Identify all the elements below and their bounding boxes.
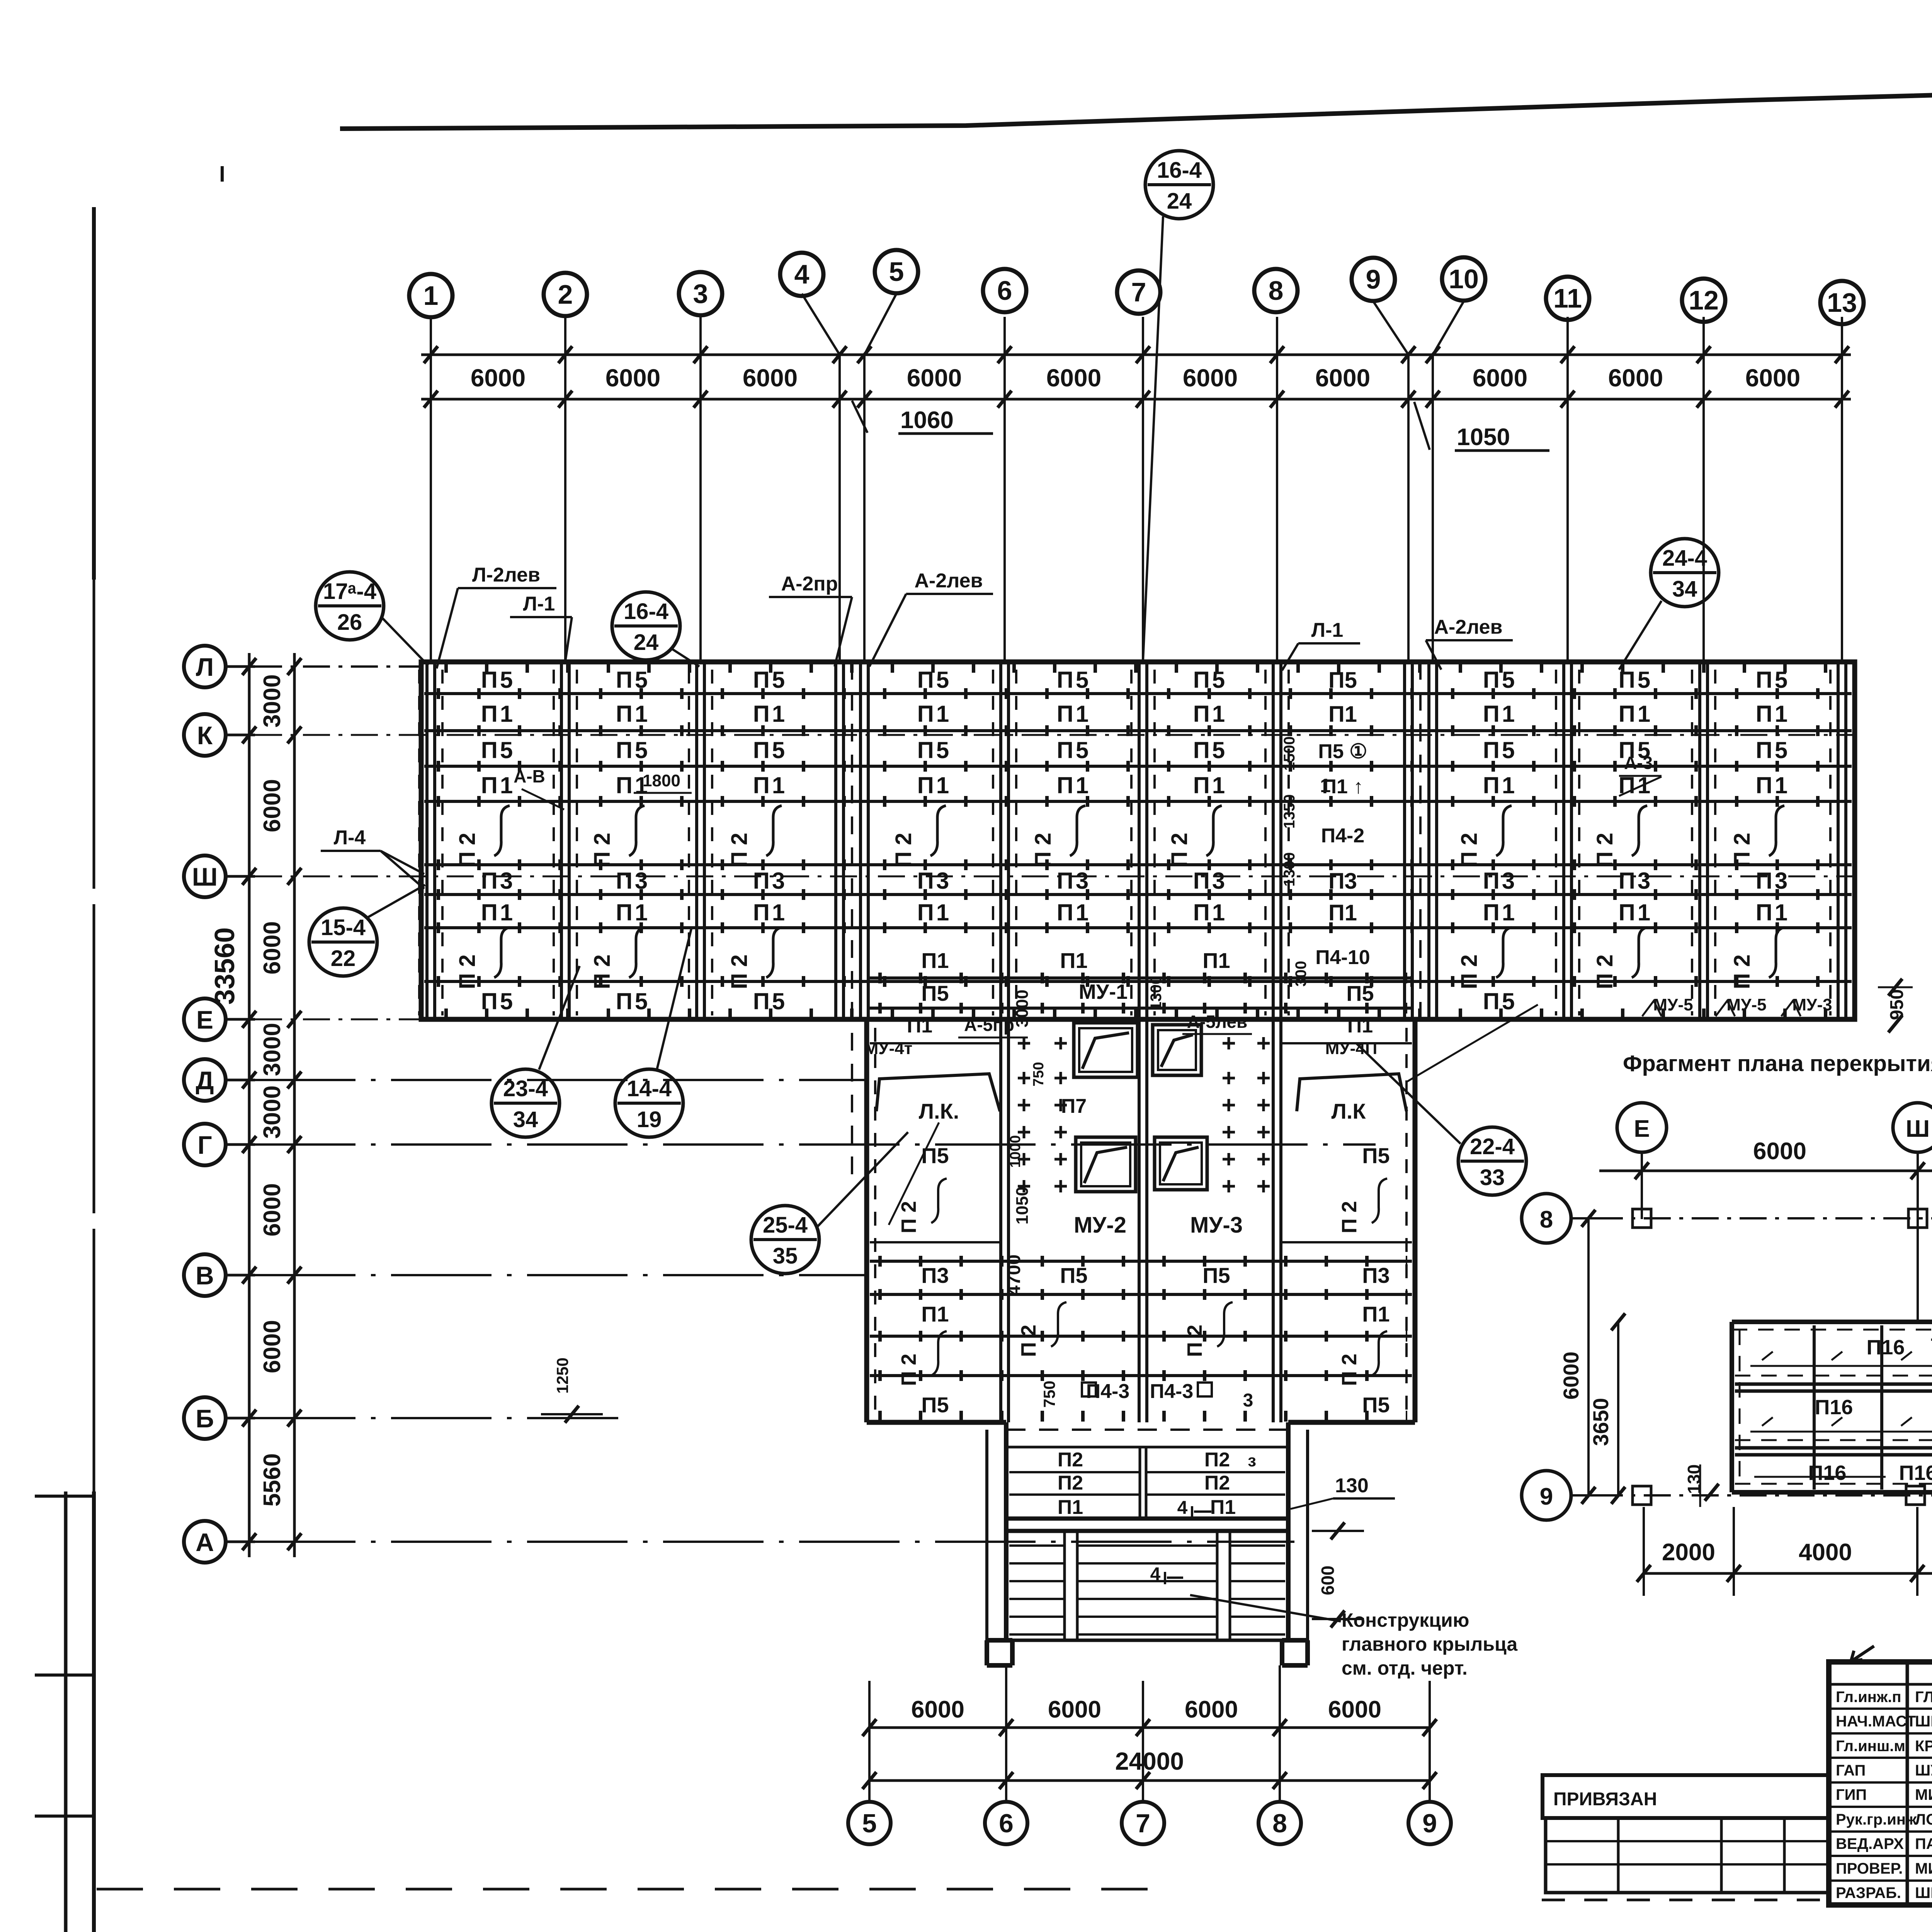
svg-text:Ш: Ш [192,862,218,891]
grid circle 8 [1254,269,1298,312]
svg-text:П5: П5 [481,667,515,693]
svg-text:7: 7 [1136,1809,1150,1838]
grid circle 11 [1546,277,1589,320]
svg-text:П 2: П 2 [1338,1201,1361,1233]
svg-text:ГАП: ГАП [1836,1762,1866,1779]
svg-text:ПАНФЕРОВА: ПАНФЕРОВА [1915,1835,1932,1852]
svg-text:П1: П1 [917,772,952,798]
label Л-4 [321,827,424,889]
slab panel strip lines (top bar) [424,667,1852,1014]
fragment panel labels [1750,1330,1932,1485]
svg-text:14-4: 14-4 [627,1076,672,1101]
svg-text:1: 1 [423,281,439,311]
svg-text:П1: П1 [1210,1496,1236,1519]
svg-text:Л-1: Л-1 [523,593,555,615]
svg-text:9: 9 [1422,1809,1437,1838]
column grid vertical lines above plan [431,317,1842,662]
svg-text:А-5пр: А-5пр [964,1015,1014,1035]
svg-text:см. отд. черт.: см. отд. черт. [1342,1657,1468,1679]
panel labels bay 3-4 [727,667,787,1014]
svg-text:П3: П3 [753,868,787,894]
left border [35,207,94,1932]
svg-text:ПРИВЯЗАН: ПРИВЯЗАН [1553,1789,1657,1810]
row grid line К [255,734,1855,736]
callout circle 14-4/19 [615,927,692,1137]
fragment grid row 9 dashdot [1596,1486,1932,1505]
svg-text:главного крыльца: главного крыльца [1342,1633,1518,1655]
svg-text:17ᵃ-4: 17ᵃ-4 [323,579,376,604]
dim 1800 in bay 3-4 [634,771,692,793]
svg-text:П3: П3 [1328,869,1357,894]
svg-text:П3: П3 [921,1263,949,1287]
svg-text:6000: 6000 [471,364,526,392]
bottom grid circle 9 [1408,1802,1451,1844]
svg-text:Л-2лев: Л-2лев [472,564,540,586]
row grid line Г [255,1143,1376,1146]
left dimension verticals [242,653,301,1557]
stem panel labels [864,948,1390,1417]
svg-text:П1: П1 [907,1015,932,1037]
svg-text:П5: П5 [1193,667,1228,693]
fragment bottom dims [1637,1464,1932,1596]
svg-text:Ш: Ш [1906,1116,1930,1142]
svg-text:24: 24 [1167,189,1192,214]
svg-text:1300: 1300 [1148,976,1165,1010]
svg-text:П5: П5 [1060,1263,1087,1287]
svg-text:Г: Г [197,1131,212,1159]
svg-text:26: 26 [337,610,362,635]
svg-text:1000: 1000 [1007,1135,1024,1168]
svg-text:ПРОВЕР.: ПРОВЕР. [1836,1860,1903,1877]
svg-text:11: 11 [1553,283,1582,313]
svg-text:6000: 6000 [1046,364,1101,392]
row grid circle Е [184,998,255,1040]
svg-text:П 2: П 2 [727,833,752,867]
svg-text:16-4: 16-4 [1157,158,1202,183]
svg-text:П1: П1 [917,701,952,727]
svg-text:34: 34 [1672,577,1697,602]
svg-text:П 2: П 2 [1338,1354,1361,1386]
row grid line Ш [255,876,1855,878]
svg-text:П5: П5 [921,1143,949,1168]
svg-text:П 2: П 2 [1730,954,1755,989]
stair bay right (Л.К.) [1297,1005,1538,1123]
svg-text:П5: П5 [1483,737,1517,763]
svg-text:П5: П5 [1619,667,1653,693]
top 6000 dimension labels [471,364,1800,392]
svg-text:МУ-2: МУ-2 [1074,1213,1126,1238]
svg-text:П3: П3 [1483,868,1517,894]
svg-text:6000: 6000 [1473,364,1527,392]
svg-text:3000: 3000 [1013,990,1032,1027]
svg-text:П 2: П 2 [1730,833,1755,867]
svg-text:П5: П5 [753,667,787,693]
porch panel labels [1058,1449,1256,1519]
svg-text:25-4: 25-4 [763,1213,808,1238]
svg-text:П5: П5 [917,737,952,763]
svg-text:1050: 1050 [1457,424,1510,451]
svg-text:П1: П1 [921,948,949,973]
opening МУ-2 window [1076,1137,1136,1192]
svg-text:9: 9 [1540,1483,1553,1510]
callout circle 16-4/24 (left) [612,592,699,667]
panel labels bay 10-11 [1457,667,1517,1014]
svg-text:33: 33 [1480,1165,1505,1190]
dim 600 porch [1312,1522,1364,1628]
row grid circle А [184,1521,255,1563]
narrow strip grids 9-10 [1419,662,1422,1019]
fragment slab outline [1732,1322,1932,1492]
svg-text:3: 3 [1243,1390,1253,1411]
small arrow near title block [1851,1646,1874,1662]
svg-text:600: 600 [1318,1566,1338,1595]
svg-text:ВЕД.АРХ: ВЕД.АРХ [1836,1835,1904,1852]
sheet top rule [340,76,1932,129]
svg-text:ШЕМЧУК: ШЕМЧУК [1915,1884,1932,1901]
svg-text:П2: П2 [1058,1449,1083,1471]
svg-text:1500: 1500 [1281,736,1298,771]
fragment left grid circle 9 [1522,1471,1596,1520]
porch outline [987,1422,1308,1640]
svg-text:П 2: П 2 [1457,954,1482,989]
svg-text:6000: 6000 [1745,364,1800,392]
grid circle 7 [1117,270,1160,314]
grid circle 10 [1442,257,1485,301]
grid circle 1 [409,274,452,317]
svg-text:П1: П1 [616,900,650,925]
svg-text:П16: П16 [1867,1336,1905,1359]
svg-text:3650: 3650 [1588,1398,1613,1446]
svg-text:7: 7 [1131,277,1146,307]
dim 1050 callout (grids 9-10) [1414,402,1549,451]
svg-text:1050: 1050 [1013,1187,1032,1225]
svg-text:7: 7 [1930,1335,1932,1357]
svg-text:6000: 6000 [605,364,660,392]
svg-text:8: 8 [1269,276,1284,306]
panel labels bay 5-6 [891,667,951,925]
svg-text:П2: П2 [1204,1472,1230,1494]
svg-text:4: 4 [1177,1498,1188,1518]
svg-text:П1: П1 [1756,701,1790,727]
svg-text:П1: П1 [1057,701,1091,727]
svg-text:П 2: П 2 [1457,833,1482,867]
bottom grid circle 8 [1259,1802,1301,1844]
svg-text:15-4: 15-4 [321,915,366,940]
svg-text:5560: 5560 [259,1453,286,1507]
svg-text:3000: 3000 [259,674,286,728]
svg-text:3: 3 [693,279,708,309]
svg-text:П1: П1 [1483,701,1517,727]
fragment vertical dim 3650 [1588,1313,1625,1504]
svg-text:П3: П3 [1619,868,1653,894]
left dimension labels [209,674,286,1507]
svg-text:П1: П1 [753,772,787,798]
svg-text:1250: 1250 [553,1357,571,1393]
svg-text:П5: П5 [481,988,515,1014]
fragment grid circle Е [1617,1103,1667,1152]
svg-text:Рук.гр.инж: Рук.гр.инж [1836,1811,1917,1828]
callout circle 25-4/35 [751,1132,908,1274]
svg-text:П5: П5 [1193,737,1228,763]
grid circle 5 [875,250,918,293]
svg-text:П1: П1 [1483,772,1517,798]
svg-text:750: 750 [1031,1062,1047,1086]
svg-text:П1: П1 [1328,702,1357,727]
svg-text:П5: П5 [1362,1143,1389,1168]
building top bar outline [421,662,1855,1019]
callout circle 15-4/22 [309,885,425,976]
svg-text:5: 5 [889,257,904,287]
label Л-1 (right) [1282,619,1360,670]
svg-text:Б: Б [196,1404,214,1433]
svg-text:22: 22 [331,946,356,971]
svg-text:П3: П3 [616,868,650,894]
narrow strip grids 4-5 [851,662,853,1179]
svg-text:А-В: А-В [514,766,545,786]
svg-text:П5: П5 [1362,1393,1389,1417]
svg-text:П1: П1 [1328,900,1357,925]
grid circle 9 [1352,258,1395,301]
МУ-5 / МУ-3 monolith labels right wing [1642,995,1832,1016]
svg-text:П5: П5 [616,988,650,1014]
svg-text:П3: П3 [1193,868,1228,894]
svg-text:2000: 2000 [1662,1539,1715,1566]
row grid line Д [255,1079,867,1081]
svg-text:750: 750 [1040,1381,1058,1408]
svg-text:П5: П5 [1756,737,1790,763]
svg-text:ШЕСТОПАЛОВ: ШЕСТОПАЛОВ [1915,1713,1932,1730]
svg-text:П1: П1 [481,900,515,925]
svg-text:22-4: 22-4 [1470,1134,1515,1159]
callout circle 22-4/33 [1356,1043,1526,1195]
svg-text:П3: П3 [1362,1263,1389,1287]
svg-text:4: 4 [1150,1564,1161,1585]
svg-text:П1: П1 [1057,900,1091,925]
svg-text:35: 35 [773,1243,798,1269]
svg-text:П 2: П 2 [897,1354,920,1386]
svg-text:12: 12 [1689,285,1719,315]
svg-text:А-3: А-3 [1624,753,1653,773]
svg-text:ШУМОВ: ШУМОВ [1915,1762,1932,1779]
row grid line В [255,1274,867,1276]
svg-text:6000: 6000 [743,364,798,392]
svg-text:6000: 6000 [911,1696,964,1723]
grid 5 line + leader [864,294,896,662]
svg-text:НАЧ.МАСТ: НАЧ.МАСТ [1836,1713,1916,1730]
svg-text:П1: П1 [1619,900,1653,925]
svg-text:6000: 6000 [1183,364,1238,392]
svg-text:П1: П1 [1193,701,1228,727]
opening МУ-3 window [1155,1137,1207,1190]
svg-text:П1: П1 [1483,900,1517,925]
svg-text:1: 1 [1320,775,1331,796]
opening МУ-1 right window [1153,1025,1201,1075]
dim 1250 near Б [541,1357,603,1423]
row grid circle Л [184,646,255,687]
svg-text:2: 2 [558,279,573,310]
svg-text:1350: 1350 [1281,794,1298,829]
svg-text:6000: 6000 [259,1183,286,1236]
svg-text:1060: 1060 [900,407,954,434]
svg-text:ЛОГИНОВА: ЛОГИНОВА [1915,1811,1932,1828]
svg-text:6000: 6000 [1753,1138,1806,1165]
svg-text:300: 300 [1293,961,1310,987]
svg-text:Л.К.: Л.К. [919,1099,959,1123]
svg-text:А: А [196,1528,214,1556]
bottom grid circle 7 [1122,1802,1164,1844]
svg-text:6000: 6000 [259,779,286,832]
callout А-3 in bay 11-12 [1619,753,1662,796]
row grid line Е [255,1019,867,1020]
svg-text:П1: П1 [1193,900,1228,925]
svg-text:Гл.инж.п: Гл.инж.п [1836,1689,1901,1706]
stem П2 labels [897,1179,1387,1386]
svg-text:П 2: П 2 [727,954,752,989]
opening МУ-1 left window [1074,1023,1138,1077]
svg-text:П5: П5 [921,1393,949,1417]
svg-text:Л: Л [196,653,214,681]
grid 9 line + leader [1373,301,1408,662]
svg-text:16-4: 16-4 [624,599,668,624]
svg-text:КРИЧЕВСКИЙ: КРИЧЕВСКИЙ [1915,1737,1932,1755]
grid circle 2 [544,273,587,316]
svg-text:3000: 3000 [259,1085,286,1139]
svg-text:А-5лев: А-5лев [1187,1012,1248,1032]
svg-text:А-2лев: А-2лев [1434,616,1502,638]
svg-text:П5 ①: П5 ① [1318,740,1367,763]
svg-text:МУ-4т: МУ-4т [864,1039,913,1058]
svg-text:П5: П5 [1057,737,1091,763]
svg-text:П5: П5 [1483,667,1517,693]
column ribs in top bar [419,662,1854,1019]
svg-text:П 2: П 2 [1592,954,1617,989]
svg-text:Л.К: Л.К [1331,1099,1366,1123]
row grid line Б [255,1417,618,1419]
svg-text:6000: 6000 [1315,364,1370,392]
svg-text:МУ-4П: МУ-4П [1325,1039,1378,1058]
svg-text:24-4: 24-4 [1662,546,1707,571]
svg-text:П5: П5 [1328,668,1357,693]
svg-text:МИЛКОВСКИЙ: МИЛКОВСКИЙ [1915,1786,1932,1803]
svg-text:П 2: П 2 [1031,833,1056,867]
svg-text:П4-2: П4-2 [1321,825,1365,847]
svg-text:К: К [197,721,213,750]
panel labels bay 8-9 (П4 zone) [1281,668,1370,986]
svg-text:П5: П5 [753,988,787,1014]
svg-text:3000: 3000 [259,1023,286,1076]
svg-text:П2: П2 [1058,1472,1083,1494]
svg-text:В: В [196,1261,214,1290]
title block signature rows [1829,1684,1932,1901]
svg-text:з: з [1248,1451,1256,1470]
svg-text:Д: Д [196,1066,214,1095]
svg-text:24: 24 [634,630,659,655]
svg-text:П1: П1 [1057,772,1091,798]
svg-text:П5: П5 [1483,988,1517,1014]
grid 10 line + leader [1433,301,1464,662]
panel labels bay 2-3 [590,667,650,1014]
fragment left grid circle 8 [1522,1194,1596,1243]
callout А-В in bay 1-2 [514,766,564,810]
svg-text:П3: П3 [1057,868,1091,894]
svg-text:П 2: П 2 [590,954,615,989]
svg-text:П5: П5 [1057,667,1091,693]
svg-text:П 2: П 2 [1017,1325,1040,1357]
callout circle 24-4/34 [1619,539,1719,670]
svg-text:П5: П5 [1202,1263,1230,1287]
fragment vertical dim 6000 [1559,1210,1595,1504]
svg-text:Гл.инш.м.: Гл.инш.м. [1836,1738,1910,1755]
svg-text:П3: П3 [1756,868,1790,894]
svg-text:П1: П1 [1347,1015,1373,1037]
top-left stray line [221,166,224,182]
label Л-1 [510,593,572,664]
row grid circle Ш [184,855,255,897]
svg-text:П16-1: П16-1 [1899,1461,1932,1485]
svg-text:МУ-3: МУ-3 [1190,1213,1243,1238]
bottom grid circle 6 [985,1802,1027,1844]
svg-text:4: 4 [794,259,810,289]
callout circle 16-4/24 (center) [1143,151,1213,661]
svg-text:П 2: П 2 [455,954,480,989]
svg-text:Фрагмент плана перекрытия на о: Фрагмент плана перекрытия на отм. ч.п. 1… [1623,1051,1932,1076]
svg-text:6: 6 [999,1809,1014,1838]
svg-text:П1: П1 [753,701,787,727]
svg-text:П 2: П 2 [897,1201,920,1233]
dim 1060 callout (grids 4-5) [852,401,993,434]
svg-text:4000: 4000 [1799,1539,1852,1566]
svg-text:П 2: П 2 [891,833,916,867]
label А-2лев (right) [1426,616,1513,670]
label Л-2лев [437,564,556,668]
svg-text:6000: 6000 [259,1320,286,1373]
fragment top dim line [1599,1138,1932,1499]
svg-text:МУ-1: МУ-1 [1079,980,1128,1003]
callout circle 23-4/34 [492,966,580,1137]
porch leader note [1190,1595,1518,1679]
svg-text:Конструкцию: Конструкцию [1342,1609,1469,1631]
grid circle 13 [1820,281,1864,324]
svg-text:6000: 6000 [1328,1696,1381,1723]
stair bay left (Л.К.) [876,1074,1000,1225]
panel labels bay 6-7 [1031,667,1091,925]
grid 4 line + leader [802,294,840,662]
svg-text:6000: 6000 [259,921,286,975]
panel labels bay 11-12 [1592,667,1653,989]
svg-text:34: 34 [513,1107,538,1132]
panel labels bay 1-2 [455,667,515,1014]
svg-text:П5: П5 [1756,667,1790,693]
привязан table [1543,1775,1829,1893]
svg-text:П5: П5 [753,737,787,763]
fragment grid circle Ш [1893,1103,1932,1152]
svg-text:П3: П3 [917,868,952,894]
dim 130 porch [1291,1475,1395,1509]
monolith plus marks [1018,1037,1270,1192]
svg-text:РАЗРАБ.: РАЗРАБ. [1836,1884,1901,1901]
svg-text:МИЛКОВСКИЙ: МИЛКОВСКИЙ [1915,1859,1932,1877]
svg-text:П2: П2 [1204,1449,1230,1471]
bottom grid circle 5 [848,1802,891,1844]
svg-text:П1: П1 [616,701,650,727]
bottom dashed rule [97,1888,1155,1891]
svg-text:П 2: П 2 [1167,833,1192,867]
stem strip lines [870,978,1412,1416]
svg-text:10: 10 [1449,264,1479,294]
svg-text:П16: П16 [1815,1396,1853,1419]
svg-text:П1: П1 [1756,900,1790,925]
svg-text:П5: П5 [1346,981,1374,1005]
